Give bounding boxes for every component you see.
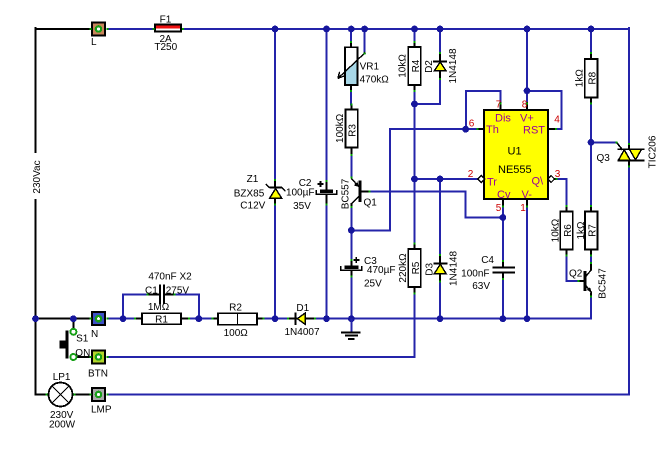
svg-text:C4: C4 [481,255,494,266]
junction pin6 Th [462,126,469,133]
wire Q1 base stub [361,191,369,193]
junction pin8 V+ loop [524,87,531,94]
wire pin3 to R6 [557,179,567,206]
lamp LP1 [49,372,76,431]
junction C2 bottom [323,315,330,322]
svg-text:100kΩ: 100kΩ [335,113,346,143]
svg-text:7: 7 [496,100,502,111]
svg-text:TIC206: TIC206 [648,135,659,168]
wire pin2 Tr [415,178,478,180]
svg-text:D2: D2 [424,60,435,73]
wire LMP to triac [108,394,630,396]
svg-text:10kΩ: 10kΩ [551,218,562,242]
wire Q1 collector down [350,207,352,231]
wire pin1 stub [526,199,528,206]
wire C3 to ground rail [350,277,352,319]
svg-text:BC547: BC547 [597,268,608,299]
svg-text:R1: R1 [155,315,168,326]
terminal LMP [91,388,112,416]
wire lamp left lead [36,394,49,396]
svg-text:25V: 25V [364,279,382,290]
svg-text:220kΩ: 220kΩ [398,253,409,283]
svg-text:R6: R6 [563,224,574,237]
wire C1 right lead [165,294,174,296]
pin2 diamond [478,176,485,183]
wire pin5 stub [502,199,504,206]
wire Z1 column bottom [274,205,276,319]
svg-text:Cv: Cv [497,189,511,201]
zener Z1 BZX85 [234,174,286,212]
wire pin1 to rail [526,207,528,319]
wire top-left black L segment [36,28,91,30]
wire R4 to R5 [414,91,416,244]
wire N rail black [36,318,91,320]
triac Q3 TIC206 [597,135,659,168]
junction D3 bottom [437,315,444,322]
wire Q1 collector to C3 [350,230,352,260]
wire R8 bottom to gate node [590,104,592,143]
svg-text:LMP: LMP [91,405,112,416]
wire D2 bottom to R4 [415,79,441,104]
svg-text:F1: F1 [160,15,172,26]
svg-text:1N4148: 1N4148 [448,48,459,83]
junction C1 left [120,315,127,322]
svg-text:275V: 275V [166,286,190,297]
potentiometer VR1 [338,42,389,91]
svg-text:Q3: Q3 [597,153,611,164]
svg-text:S1: S1 [76,334,89,345]
svg-text:8: 8 [522,100,528,111]
capacitor C2 [286,178,337,212]
terminal N [91,312,105,340]
svg-text:U1: U1 [508,146,522,158]
wire triac gate lead [617,142,623,149]
wire C2 column top [326,29,328,181]
svg-text:ON: ON [75,348,90,359]
svg-text:6: 6 [469,119,475,130]
switch S1 [60,329,91,360]
junction Z1 bottom [272,315,279,322]
svg-text:R2: R2 [229,303,242,314]
wire Q2 base stub [579,280,585,282]
junction pin1 bottom [524,315,531,322]
svg-text:Tr: Tr [487,177,497,189]
resistor R4 [398,42,422,92]
svg-text:R7: R7 [588,224,599,237]
wire R7 to Q2 collector [590,256,592,264]
wire top rail [183,28,629,30]
wire gate horizontal [591,141,616,143]
wire left vertical to lamp [35,319,37,395]
transistor Q2 BC547 [569,263,608,299]
svg-text:Q1: Q1 [364,198,378,209]
svg-text:100µF: 100µF [286,188,315,199]
diode D2 1N4148 [424,48,459,83]
resistor R6 [551,206,574,256]
junction VR1 wiper rail [361,26,368,33]
wire R4 top [414,29,416,42]
junction gate R8 R7 [588,139,595,146]
wire VR1 to R3 [350,91,352,105]
svg-text:470kΩ: 470kΩ [360,75,390,86]
wire C2 column bottom [326,205,328,319]
wire D3 bottom [439,282,441,319]
svg-text:100Ω: 100Ω [224,328,249,339]
wire pin8 stub [526,103,528,110]
wire L to fuse [108,28,153,30]
junction V+ rail [524,26,531,33]
capacitor C3 [341,256,396,290]
svg-text:200W: 200W [49,420,76,431]
svg-text:470µF: 470µF [367,265,396,276]
junction VR1 top rail [348,26,355,33]
fuse F1 [155,25,181,32]
junction pin2 D3 [437,176,444,183]
svg-text:1N4007: 1N4007 [284,327,319,338]
svg-text:5: 5 [496,203,502,214]
wire D3 top [439,179,441,255]
junction ground node [348,315,355,322]
svg-text:1kΩ: 1kΩ [576,221,587,240]
resistor R2 [213,303,263,340]
svg-text:Q\: Q\ [532,176,545,188]
resistor R7 [576,206,599,256]
timer IC U1 NE555 [484,110,548,201]
svg-text:35V: 35V [293,201,311,212]
svg-text:L: L [91,37,97,48]
svg-text:RST: RST [523,125,545,137]
wire C4 to rail [502,279,504,319]
svg-text:1N4148: 1N4148 [448,251,459,286]
wire VR1 wiper drop [364,29,366,53]
svg-text:T250: T250 [154,42,177,53]
wire pin3 stub [555,178,557,180]
svg-text:2: 2 [468,169,474,180]
junction Q1 collector [348,227,355,234]
wire C1 left lead [148,294,159,296]
svg-text:V+: V+ [520,113,534,125]
diode D1 1N4007 [284,303,319,338]
pin3 diamond [548,176,555,183]
svg-text:NE555: NE555 [498,164,532,176]
svg-text:BZX85: BZX85 [234,189,265,200]
wire triac bottom drop [628,166,630,395]
svg-text:Z1: Z1 [247,174,259,185]
wire R3 to Q1 [350,155,352,178]
wire Q1 base to pin5 [370,192,503,218]
resistor R5 [398,244,422,294]
junction R8 top rail [588,26,595,33]
junction R4 top rail [411,26,418,33]
wire C1 loop right [175,295,199,319]
junction S1 N [70,315,77,322]
wire Z1 column top [274,29,276,180]
junction pin2 R5 [411,176,418,183]
wire pin8 V+ drop [526,29,528,103]
lead connection marks [46,28,631,396]
wire pin6 stub [478,128,485,130]
wire pin4 stub [548,128,556,130]
terminal BTN [88,351,108,380]
svg-text:N: N [91,329,98,340]
wire pin5 to C4 [502,207,504,262]
junction R4 D2 [411,101,418,108]
svg-text:Q2: Q2 [569,269,583,280]
svg-text:R5: R5 [411,261,422,274]
junction Z1 top rail [272,26,279,33]
svg-text:V-: V- [522,189,533,201]
wire left vertical 230Vac upper [35,28,37,152]
svg-text:100nF: 100nF [461,269,489,280]
svg-text:230Vac: 230Vac [32,160,43,193]
resistor R1 [135,302,188,326]
svg-text:D1: D1 [296,303,309,314]
wire R8 top [590,29,592,53]
svg-text:63V: 63V [472,281,490,292]
svg-text:BC557: BC557 [341,178,352,209]
svg-text:R4: R4 [411,59,422,72]
junction C4 bottom [500,315,507,322]
junction N left [32,315,39,322]
junction D2 top rail [437,26,444,33]
svg-text:1: 1 [520,203,526,214]
wire C1 loop [123,295,147,319]
terminal L [91,23,105,49]
svg-text:10kΩ: 10kΩ [398,54,409,78]
wire BTN to R5 [108,294,415,357]
wire Q2 emitter to rail [590,297,592,319]
wire bottom ground rail [108,318,592,320]
label F1 value [154,15,177,54]
svg-text:VR1: VR1 [360,62,380,73]
capacitor C1 [145,272,192,305]
resistor R8 [574,53,598,104]
wire gate node to R7 [590,142,592,206]
junction C2 top rail [323,26,330,33]
svg-text:Dis: Dis [495,113,511,125]
transistor Q1 BC557 [341,178,378,209]
resistor R3 [335,105,359,156]
wire Q1 collector to Th pin6 [351,129,477,230]
svg-text:R8: R8 [587,71,598,84]
wire R6 to Q2 base [567,256,578,282]
svg-text:LP1: LP1 [53,372,71,383]
wire pin7 stub [500,103,502,110]
diode D3 1N4148 [424,251,459,286]
svg-text:R3: R3 [348,124,359,137]
wire triac top drop [628,28,630,144]
wire S1 stub [72,319,74,328]
svg-text:4: 4 [554,115,560,126]
junction C1 right [195,315,202,322]
svg-text:470nF X2: 470nF X2 [148,272,192,283]
wire pin7 loop [466,91,501,129]
wire R5 bottom lead blue [414,294,416,301]
svg-text:1kΩ: 1kΩ [574,69,585,88]
wire lamp right lead to LMP [73,394,91,396]
svg-text:Th: Th [486,124,499,136]
wire left vertical 230Vac lower [35,200,37,319]
svg-text:D3: D3 [424,262,435,275]
svg-text:C12V: C12V [240,201,265,212]
svg-text:1MΩ: 1MΩ [148,302,170,313]
ground [341,319,361,339]
wire D2 top [439,29,441,53]
junction pin5 Cv [500,214,507,221]
capacitor C4 [461,255,515,292]
wire pin8 to pin4 loop [527,91,562,129]
svg-text:BTN: BTN [88,369,108,380]
wire S1 to BTN [78,356,91,358]
wire VR1 top [350,29,352,42]
